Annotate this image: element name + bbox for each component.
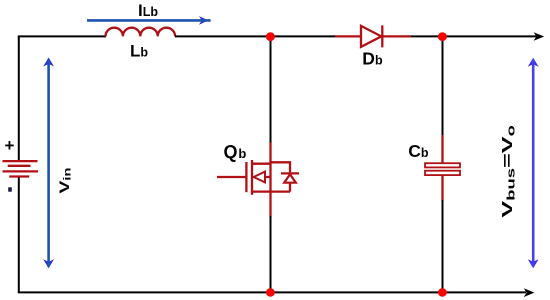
svg-text:+: + xyxy=(5,136,15,155)
svg-text:Db: Db xyxy=(362,48,383,68)
svg-text:Qb: Qb xyxy=(224,142,247,162)
node C: source bottom junction dot xyxy=(266,288,275,296)
svg-text:Vin: Vin xyxy=(56,168,74,194)
svg-text:ILb: ILb xyxy=(138,1,158,20)
wire: right branch lower (capacitor to node D) xyxy=(442,200,444,292)
wire: top rail from diode to node B xyxy=(411,35,443,37)
wire: left rail lower segment (battery - to bottom rail) xyxy=(18,177,20,292)
inductor Lb xyxy=(106,28,176,37)
svg-text:Vbus=Vo: Vbus=Vo xyxy=(499,125,517,218)
svg-text:Cb: Cb xyxy=(408,141,429,161)
capacitor Cb xyxy=(425,135,460,201)
wire: output arrow top right xyxy=(443,32,545,41)
wire: top rail from inductor to node A xyxy=(175,35,271,37)
wire: top rail from node A to diode xyxy=(271,35,336,37)
wire: bottom rail with return arrow xyxy=(18,288,535,297)
node A: drain junction dot xyxy=(266,32,275,41)
node D: bottom right junction dot xyxy=(438,288,447,296)
arrow: Vbus measurement (blue double arrow) xyxy=(528,58,539,268)
arrow: Vin measurement (blue double arrow) xyxy=(43,58,54,269)
transistor Q1: MOSFET Qb with body diode xyxy=(217,143,299,217)
diode Db xyxy=(335,25,411,47)
node B: output junction dot xyxy=(438,32,447,41)
wire: source vertical (MOSFET to node C) xyxy=(270,216,272,292)
wire: right branch upper (node B to capacitor) xyxy=(442,36,444,136)
wire: drain vertical (node A to MOSFET) xyxy=(270,36,272,143)
wire: left rail upper segment (top-left corner to battery +) xyxy=(18,36,20,160)
current arrow ILb xyxy=(87,16,211,25)
svg-text:Lb: Lb xyxy=(130,42,148,61)
battery Vin source xyxy=(3,161,39,176)
label - (battery negative) xyxy=(8,187,12,191)
wire: top rail from corner to inductor xyxy=(18,35,106,37)
